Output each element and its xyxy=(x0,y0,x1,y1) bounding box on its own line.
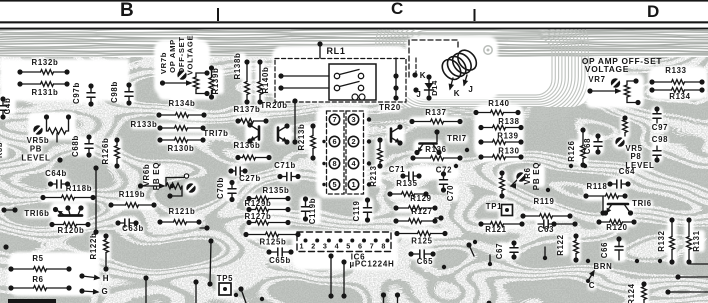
svg-text:R139: R139 xyxy=(497,132,518,141)
svg-text:7: 7 xyxy=(332,115,336,124)
svg-text:R132: R132 xyxy=(657,230,666,251)
svg-text:D: D xyxy=(647,2,659,21)
svg-text:TRI6: TRI6 xyxy=(632,199,652,208)
svg-text:R135b: R135b xyxy=(263,186,290,195)
svg-text:R135: R135 xyxy=(396,179,417,188)
svg-text:R213b: R213b xyxy=(297,124,306,151)
svg-text:C71b: C71b xyxy=(274,161,296,170)
svg-text:C97b: C97b xyxy=(72,82,81,104)
svg-text:3: 3 xyxy=(351,115,355,124)
svg-text:C68: C68 xyxy=(583,138,592,154)
svg-text:R138: R138 xyxy=(498,117,519,126)
svg-text:VOLTAGE: VOLTAGE xyxy=(186,35,195,75)
svg-text:R119b: R119b xyxy=(119,190,145,199)
svg-text:C: C xyxy=(391,0,403,18)
svg-text:R127: R127 xyxy=(411,207,432,216)
svg-text:R129b: R129b xyxy=(245,199,272,208)
svg-text:R121: R121 xyxy=(485,225,506,234)
svg-text:G: G xyxy=(102,287,109,296)
svg-text:8: 8 xyxy=(332,159,336,168)
svg-text:R213: R213 xyxy=(369,165,378,186)
svg-text:R125b: R125b xyxy=(260,238,287,247)
svg-text:R132b: R132b xyxy=(32,58,59,67)
svg-text:R138b: R138b xyxy=(233,53,242,80)
svg-text:H: H xyxy=(103,274,109,283)
svg-text:R8b: R8b xyxy=(0,142,4,158)
svg-text:C: C xyxy=(589,281,595,290)
svg-text:BRN: BRN xyxy=(594,262,613,271)
svg-text:R126b: R126b xyxy=(101,138,110,165)
svg-text:VR6b: VR6b xyxy=(142,164,151,187)
svg-text:C27b: C27b xyxy=(239,174,261,183)
svg-text:PB: PB xyxy=(30,145,42,154)
svg-text:C63: C63 xyxy=(538,225,554,234)
svg-text:1: 1 xyxy=(351,180,355,189)
svg-text:C66: C66 xyxy=(600,242,609,258)
svg-text:R131b: R131b xyxy=(32,88,59,97)
svg-text:LEVEL: LEVEL xyxy=(21,154,50,163)
svg-text:µPC1224H: µPC1224H xyxy=(350,260,395,269)
svg-text:8: 8 xyxy=(381,242,385,251)
svg-text:R127b: R127b xyxy=(245,212,272,221)
svg-text:R126: R126 xyxy=(567,140,576,161)
svg-text:R125: R125 xyxy=(411,237,432,246)
svg-text:P8: P8 xyxy=(631,152,642,161)
svg-text:J: J xyxy=(468,85,473,94)
svg-text:C64b: C64b xyxy=(45,169,67,178)
svg-text:K: K xyxy=(454,89,460,98)
svg-text:R124: R124 xyxy=(627,283,636,303)
svg-text:TP5: TP5 xyxy=(217,274,233,283)
svg-text:7: 7 xyxy=(370,242,374,251)
svg-text:R130b: R130b xyxy=(168,144,195,153)
svg-text:6: 6 xyxy=(332,137,336,146)
svg-text:C65: C65 xyxy=(417,257,433,266)
svg-text:C71: C71 xyxy=(389,165,405,174)
svg-text:R140: R140 xyxy=(488,99,509,108)
svg-text:C97: C97 xyxy=(652,123,668,132)
svg-text:R122b: R122b xyxy=(89,233,98,260)
svg-text:R122: R122 xyxy=(556,234,565,255)
svg-text:C98: C98 xyxy=(652,135,668,144)
svg-text:OP AMP: OP AMP xyxy=(168,39,177,73)
svg-text:PB EQ: PB EQ xyxy=(532,162,541,190)
svg-text:5: 5 xyxy=(332,180,336,189)
svg-text:2: 2 xyxy=(351,137,355,146)
svg-text:J: J xyxy=(416,90,421,99)
svg-text:R136b: R136b xyxy=(234,141,261,150)
svg-text:RL1: RL1 xyxy=(326,46,345,56)
svg-text:R133b: R133b xyxy=(131,120,158,129)
svg-text:R134b: R134b xyxy=(169,99,196,108)
svg-text:2: 2 xyxy=(311,242,315,251)
svg-text:R137b: R137b xyxy=(234,105,261,114)
svg-text:B: B xyxy=(120,0,134,21)
svg-text:TRI7: TRI7 xyxy=(447,134,467,143)
svg-text:C70b: C70b xyxy=(216,177,225,199)
svg-text:R129: R129 xyxy=(410,194,431,203)
svg-text:R6: R6 xyxy=(32,275,43,284)
svg-text:VR7b: VR7b xyxy=(159,52,168,74)
svg-text:R119: R119 xyxy=(533,197,554,206)
svg-text:R5: R5 xyxy=(32,254,43,263)
svg-text:R133: R133 xyxy=(665,66,686,75)
svg-text:C98b: C98b xyxy=(110,81,119,103)
svg-text:D14: D14 xyxy=(430,80,439,96)
svg-text:R137: R137 xyxy=(425,108,446,117)
svg-text:C68b: C68b xyxy=(71,135,80,157)
svg-text:C70: C70 xyxy=(446,185,455,201)
svg-text:C119: C119 xyxy=(352,200,361,221)
svg-text:TR20: TR20 xyxy=(379,103,401,112)
svg-text:R136: R136 xyxy=(425,145,446,154)
svg-text:VR6: VR6 xyxy=(523,167,532,184)
svg-text:R118b: R118b xyxy=(66,184,92,193)
svg-text:C65b: C65b xyxy=(269,256,291,265)
svg-text:VR7: VR7 xyxy=(588,75,605,84)
svg-text:R131: R131 xyxy=(692,230,701,251)
svg-text:R118: R118 xyxy=(586,182,607,191)
svg-text:4: 4 xyxy=(335,242,339,251)
svg-text:C67: C67 xyxy=(495,243,504,259)
svg-text:5: 5 xyxy=(346,242,350,251)
svg-text:TRI6b: TRI6b xyxy=(24,209,49,218)
svg-text:3: 3 xyxy=(323,242,327,251)
svg-text:1: 1 xyxy=(300,242,304,251)
svg-text:R130: R130 xyxy=(498,147,519,156)
svg-text:6: 6 xyxy=(358,242,362,251)
svg-text:R134: R134 xyxy=(669,92,690,101)
svg-text:TP1: TP1 xyxy=(486,202,502,211)
svg-text:TRI7b: TRI7b xyxy=(203,129,228,138)
svg-text:C64: C64 xyxy=(619,167,635,176)
svg-text:R121b: R121b xyxy=(169,207,196,216)
svg-text:K: K xyxy=(420,71,426,80)
svg-text:VOLTAGE: VOLTAGE xyxy=(585,64,629,74)
